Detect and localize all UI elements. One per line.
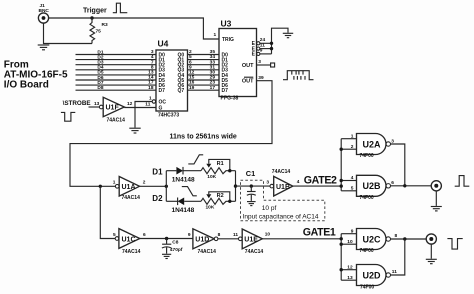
svg-text:GATE1: GATE1 xyxy=(303,227,336,239)
inverter U1D 74AC14 (bubble on output) xyxy=(193,229,221,255)
svg-text:D7: D7 xyxy=(222,88,229,94)
svg-text:D1: D1 xyxy=(152,167,163,176)
waveform rising edge glyph (leading edge adjust) xyxy=(188,155,203,164)
svg-text:9: 9 xyxy=(188,232,191,238)
svg-text:30: 30 xyxy=(210,70,216,76)
svg-text:74F00: 74F00 xyxy=(360,195,374,201)
svg-text:74AC14: 74AC14 xyxy=(122,249,141,255)
wire bus D1 to U4 D0 pin 3 xyxy=(76,49,157,55)
wire bus D6 to U4 D5 pin 14 xyxy=(76,75,157,81)
wire U2B output to GATE2 BNC xyxy=(391,185,432,187)
U3 OUT pin 3 to test point xyxy=(242,59,275,69)
svg-text:12: 12 xyxy=(347,264,353,270)
svg-text:D2: D2 xyxy=(152,194,163,203)
svg-text:TRIG: TRIG xyxy=(222,37,234,43)
svg-text:10K: 10K xyxy=(206,205,215,211)
ground at U4 OC xyxy=(129,128,140,133)
nand gate U2D 74F00 xyxy=(347,264,397,290)
node GATE1 fanout junctions xyxy=(340,237,343,271)
wire D1 cathode to R1 xyxy=(183,170,201,172)
svg-text:1N4148: 1N4148 xyxy=(172,176,195,183)
svg-text:3: 3 xyxy=(266,179,269,185)
svg-text:35: 35 xyxy=(210,49,216,55)
svg-text:74AC14: 74AC14 xyxy=(245,249,264,255)
wire GATE1 net xyxy=(262,238,341,240)
nand gate U2B 74F00 xyxy=(351,175,395,201)
svg-text:10K: 10K xyxy=(207,174,216,180)
node network output junction xyxy=(234,184,237,187)
svg-text:17: 17 xyxy=(210,85,216,91)
svg-text:6: 6 xyxy=(143,232,146,238)
inverter U1A 74AC14 xyxy=(113,177,146,201)
wire U3 E pins tied together to ground xyxy=(260,28,288,54)
wire U2A output to GATE2 output node xyxy=(391,144,405,186)
wire U1D output to U1E input xyxy=(218,232,239,239)
svg-text:PPG-38: PPG-38 xyxy=(221,96,239,102)
svg-text:4: 4 xyxy=(351,175,354,181)
wire U4 Q5 pin 15 to U3 D5 pin 29 xyxy=(188,75,220,81)
svg-text:U1A: U1A xyxy=(122,184,136,191)
wire U1F output pin 12 to U4 G pin 11 xyxy=(124,107,156,109)
waveform positive trigger pulse glyph xyxy=(113,3,128,13)
label C1 xyxy=(246,169,255,178)
nand gate U2A 74F00 xyxy=(351,133,395,159)
diode D2 1N4148 xyxy=(166,198,194,214)
wire bus D4 to U4 D3 pin 8 xyxy=(76,64,157,70)
svg-text:5: 5 xyxy=(351,186,354,192)
svg-text:11: 11 xyxy=(392,269,397,275)
svg-text:15: 15 xyxy=(189,75,195,81)
wire bus D8 to U4 D7 pin 18 xyxy=(76,85,157,91)
wire J1 shield / R3 bottom to ground xyxy=(44,23,93,43)
svg-text:8: 8 xyxy=(151,64,154,70)
svg-text:9: 9 xyxy=(189,64,192,70)
svg-text:5: 5 xyxy=(189,54,192,60)
svg-text:2: 2 xyxy=(189,49,192,55)
U3 OUT-bar pin 39 xyxy=(242,75,264,85)
capacitor C8 470pf to ground xyxy=(162,239,183,254)
svg-text:1: 1 xyxy=(214,32,217,38)
svg-text:13: 13 xyxy=(347,275,353,281)
wire U2C output to GATE1 BNC xyxy=(391,238,427,240)
svg-text:\STROBE: \STROBE xyxy=(63,100,91,107)
node trigger/R3 junction xyxy=(90,16,93,19)
svg-text:8: 8 xyxy=(395,233,398,239)
ground at U3 E pins xyxy=(283,33,293,37)
inverter U1E 74AC14 xyxy=(239,229,271,255)
node feedback split junction xyxy=(99,185,102,188)
ground at J1 xyxy=(38,45,50,50)
svg-text:U1D: U1D xyxy=(195,237,209,244)
wire U4 Q0 pin 2 to U3 D0 pin 35 xyxy=(188,49,220,55)
svg-text:1: 1 xyxy=(351,133,354,139)
svg-text:U2D: U2D xyxy=(363,270,382,280)
wire GATE1 fanout vertical xyxy=(341,234,356,281)
svg-text:6: 6 xyxy=(391,180,394,186)
wire STROBE to U1F input pin 13 xyxy=(89,101,100,107)
svg-text:C8: C8 xyxy=(172,239,178,245)
wire GATE1 BNC shield to ground xyxy=(430,244,432,259)
node R2 right junction xyxy=(228,200,231,203)
node C1 tap junction xyxy=(250,184,253,187)
svg-text:10 pf: 10 pf xyxy=(262,205,277,212)
connector J1 BNC xyxy=(38,3,49,23)
svg-text:24: 24 xyxy=(260,37,266,43)
wire bus D5 to U4 D4 pin 13 xyxy=(76,70,157,76)
svg-text:17: 17 xyxy=(148,80,154,86)
svg-text:11ns to 2561ns wide: 11ns to 2561ns wide xyxy=(170,134,237,141)
svg-text:4: 4 xyxy=(297,179,300,185)
wire diode network right tie xyxy=(235,171,237,202)
svg-text:14: 14 xyxy=(148,75,154,81)
capacitor C1 10pf to ground xyxy=(247,186,256,201)
resistor R3 75 ohm xyxy=(90,18,108,44)
wire trigger net from J1 to U3 xyxy=(49,18,219,39)
svg-text:U2B: U2B xyxy=(363,181,382,191)
svg-text:1: 1 xyxy=(149,95,152,101)
waveform negative strobe pulse glyph xyxy=(61,112,75,121)
svg-text:18: 18 xyxy=(148,85,154,91)
svg-text:3: 3 xyxy=(258,59,261,65)
svg-text:C1: C1 xyxy=(246,169,255,178)
svg-text:D6: D6 xyxy=(97,75,103,81)
inverter U1C 74AC14 xyxy=(113,229,146,255)
wire U4 OC to ground xyxy=(135,102,152,128)
dashed callout box: C1 input capacitance note xyxy=(241,180,325,220)
svg-text:1N4148: 1N4148 xyxy=(172,207,195,214)
diode D1 1N4148 xyxy=(166,167,195,184)
svg-text:74AC14: 74AC14 xyxy=(272,169,291,175)
label \STROBE xyxy=(63,100,91,107)
svg-text:5: 5 xyxy=(113,232,116,238)
svg-text:3: 3 xyxy=(151,49,154,55)
svg-text:74HC373: 74HC373 xyxy=(158,113,179,119)
svg-text:19: 19 xyxy=(189,85,195,91)
wire GATE2 fanout vertical xyxy=(341,139,356,191)
U3 pin name labels D0-D7 xyxy=(222,52,229,94)
wire D2 anode to R2 xyxy=(184,200,201,202)
svg-text:R2: R2 xyxy=(217,193,224,199)
text From AT-MIO-16F-5 I/O Board xyxy=(4,60,68,91)
svg-text:34: 34 xyxy=(210,54,216,60)
svg-text:74F00: 74F00 xyxy=(360,285,374,291)
svg-text:4: 4 xyxy=(151,54,154,60)
U3 E enable pins 24,11,9 with bubbles xyxy=(252,37,266,58)
svg-text:75: 75 xyxy=(96,29,102,35)
svg-text:31: 31 xyxy=(210,64,216,70)
svg-text:D3: D3 xyxy=(97,60,103,66)
node R1 right junction xyxy=(228,169,231,172)
wire GATE2 BNC shield to ground xyxy=(435,191,437,206)
svg-text:U1E: U1E xyxy=(244,237,258,244)
svg-text:470pf: 470pf xyxy=(170,247,183,253)
pulse generator U3 PPG-38 xyxy=(219,18,257,101)
wire U4 Q3 pin 9 to U3 D3 pin 31 xyxy=(188,64,220,70)
node C8 junction xyxy=(165,237,168,240)
svg-text:6: 6 xyxy=(189,59,192,65)
svg-text:U1F: U1F xyxy=(106,105,120,112)
wire U4 Q7 pin 19 to U3 D7 pin 17 xyxy=(188,85,220,91)
svg-text:39: 39 xyxy=(258,75,264,81)
svg-text:D7: D7 xyxy=(159,88,166,94)
U4 OC pin 1 (output enable, bubble) xyxy=(149,95,166,105)
node GATE2 fanout junctions xyxy=(340,148,343,188)
svg-text:U1B: U1B xyxy=(276,184,290,191)
svg-text:12: 12 xyxy=(189,70,195,76)
svg-text:10: 10 xyxy=(347,239,353,245)
svg-text:74AC14: 74AC14 xyxy=(122,195,141,201)
svg-text:1: 1 xyxy=(113,180,116,186)
svg-text:74F00: 74F00 xyxy=(360,248,374,254)
label Trigger xyxy=(83,8,107,15)
latch U4 74HC373 xyxy=(156,39,188,119)
svg-text:9: 9 xyxy=(351,228,354,234)
svg-text:Input capacitance of AC14: Input capacitance of AC14 xyxy=(243,213,319,220)
svg-text:U1C: U1C xyxy=(122,236,136,243)
waveform negative pulse glyph at GATE1 xyxy=(447,239,462,250)
wire U4 Q2 pin 6 to U3 D2 pin 33 xyxy=(188,59,220,65)
svg-text:2: 2 xyxy=(143,179,146,185)
label D1 xyxy=(152,167,163,176)
svg-text:13: 13 xyxy=(148,70,154,76)
svg-text:D4: D4 xyxy=(97,65,103,71)
svg-text:7: 7 xyxy=(151,59,154,65)
svg-text:3: 3 xyxy=(391,138,394,144)
wire U1A output to diode network xyxy=(140,185,167,187)
svg-text:12: 12 xyxy=(127,101,133,107)
wire feedback from OUT-bar to U1A/U1C inputs xyxy=(70,81,272,187)
svg-text:D7: D7 xyxy=(97,80,103,86)
waveform falling edge glyph (trailing edge adjust) xyxy=(182,187,197,196)
ground at C8 xyxy=(162,254,171,258)
potentiometer R2 10K xyxy=(201,192,236,211)
svg-text:D8: D8 xyxy=(97,85,103,91)
svg-text:13: 13 xyxy=(94,101,100,107)
waveform variable width pulse train glyph xyxy=(283,71,314,80)
U4 G pin 11 (latch enable) xyxy=(145,102,162,112)
ground at GATE1 BNC xyxy=(426,259,437,263)
node GATE2 output junction xyxy=(403,184,406,187)
label 11ns to 2561ns wide xyxy=(170,134,237,141)
nand gate U2C 74F00 xyxy=(347,228,397,254)
inverter U1F 74AC14 xyxy=(99,97,132,123)
svg-text:33: 33 xyxy=(210,59,216,65)
label GATE1 xyxy=(303,227,336,239)
wire U4 Q4 pin 12 to U3 D4 pin 30 xyxy=(188,70,220,76)
svg-text:OUT: OUT xyxy=(242,63,254,69)
potentiometer R1 10K xyxy=(201,159,236,179)
U4 pin name labels Q0-Q7 xyxy=(178,52,185,94)
node diode network left junction xyxy=(165,171,168,202)
svg-text:8: 8 xyxy=(218,232,221,238)
ground at C1 xyxy=(247,202,256,206)
svg-text:U4: U4 xyxy=(158,39,169,49)
svg-text:D2: D2 xyxy=(97,54,103,60)
svg-text:11: 11 xyxy=(145,102,150,108)
svg-text:Q7: Q7 xyxy=(178,88,185,94)
svg-text:Trigger: Trigger xyxy=(83,8,107,15)
svg-text:D5: D5 xyxy=(97,70,103,76)
wire bus D2 to U4 D1 pin 4 xyxy=(76,54,157,60)
wire bus D3 to U4 D2 pin 7 xyxy=(76,59,157,65)
svg-text:I/O Board: I/O Board xyxy=(4,80,49,91)
node GATE1 output junction xyxy=(403,237,406,240)
svg-text:BNC: BNC xyxy=(39,8,50,14)
svg-text:23: 23 xyxy=(210,80,216,86)
ground at GATE2 BNC xyxy=(431,207,442,211)
label D2 xyxy=(152,194,163,203)
svg-text:R3: R3 xyxy=(102,22,108,28)
svg-text:74AC14: 74AC14 xyxy=(198,249,217,255)
label GATE2 xyxy=(304,175,337,187)
svg-text:10: 10 xyxy=(265,232,271,238)
svg-text:74F00: 74F00 xyxy=(360,153,374,159)
connector GATE2 output BNC xyxy=(431,181,441,191)
svg-text:U2C: U2C xyxy=(363,234,382,244)
U3 TRIG pin 1 xyxy=(214,32,235,43)
svg-text:U2A: U2A xyxy=(363,139,382,149)
svg-text:R1: R1 xyxy=(217,161,224,167)
svg-text:D1: D1 xyxy=(97,49,103,55)
waveform positive pulse glyph at GATE2 xyxy=(455,176,470,187)
connector GATE1 output BNC xyxy=(426,234,436,244)
svg-text:16: 16 xyxy=(189,80,195,86)
node E tie junctions xyxy=(270,42,273,51)
svg-text:OUT: OUT xyxy=(242,79,254,85)
svg-text:29: 29 xyxy=(210,75,216,81)
wire network output to U1B input xyxy=(236,185,270,187)
svg-text:U3: U3 xyxy=(221,18,232,28)
inverter U1B 74AC14 xyxy=(266,169,299,196)
svg-text:2: 2 xyxy=(351,144,354,150)
svg-text:11: 11 xyxy=(233,232,238,238)
svg-text:74AC14: 74AC14 xyxy=(107,118,126,124)
wire bus D7 to U4 D6 pin 17 xyxy=(76,80,157,86)
U4 pin name labels D0-D7 xyxy=(159,52,166,94)
wire feedback down to U1C input xyxy=(100,186,115,238)
wire GATE2 net xyxy=(293,185,341,187)
wire U4 Q1 pin 5 to U3 D1 pin 34 xyxy=(188,54,220,60)
svg-text:GATE2: GATE2 xyxy=(304,175,337,187)
wire U1C output to U1D input xyxy=(140,232,193,239)
wire U2D output up to GATE1 output node xyxy=(391,239,405,275)
svg-text:G: G xyxy=(159,106,163,112)
wire U4 Q6 pin 16 to U3 D6 pin 23 xyxy=(188,80,220,86)
